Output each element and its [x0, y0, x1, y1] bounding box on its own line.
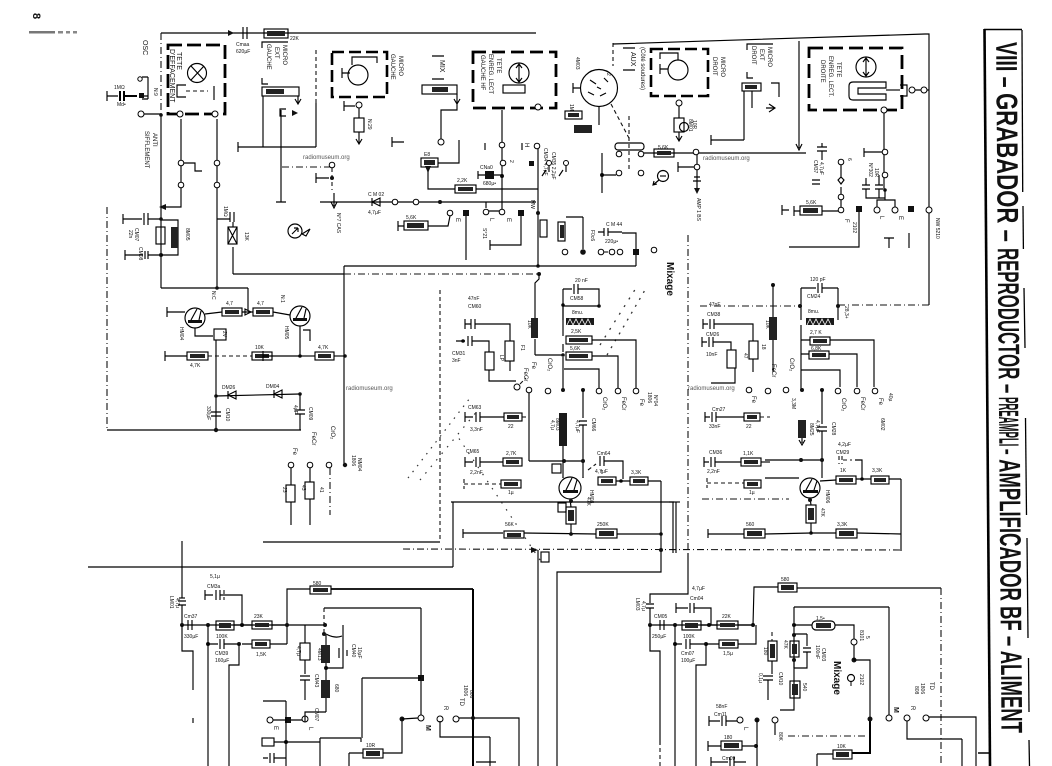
svg-text:1806: 1806 — [646, 392, 652, 403]
RM03 left drop — [262, 96, 264, 147]
record head right box TETE ENREG. LECT. DROITE — [809, 48, 902, 110]
erase head symbol (circle with X) — [188, 64, 207, 83]
svg-text:2,7K: 2,7K — [506, 451, 517, 457]
resistor RM44 — [744, 529, 765, 538]
output pins row — [267, 717, 273, 723]
svg-text:330µF: 330µF — [205, 406, 211, 420]
cap CM40 column — [342, 625, 344, 648]
ground bar y288 — [161, 287, 248, 289]
svg-text:CM31: CM31 — [452, 351, 466, 357]
connector RM03 box — [262, 87, 299, 96]
osc vertical wire — [160, 33, 162, 115]
svg-text:5: 5 — [864, 636, 870, 639]
cap CM03 — [794, 634, 811, 668]
svg-text:FeCr: FeCr — [859, 397, 865, 410]
wires to contacts — [711, 340, 773, 383]
svg-text:LM03: LM03 — [634, 598, 640, 611]
svg-text:680µ•: 680µ• — [483, 181, 496, 187]
transistor T2 — [290, 306, 310, 326]
svg-text:N:1: N:1 — [279, 295, 285, 303]
svg-text:Cm27: Cm27 — [712, 407, 726, 413]
svg-text:E: E — [505, 218, 511, 222]
x698 column — [694, 164, 700, 170]
head core bar — [503, 85, 525, 93]
svg-text:6M02: 6M02 — [879, 418, 885, 431]
pin on head box — [535, 104, 541, 110]
svg-text:2: 2 — [508, 160, 514, 163]
svg-text:radiomuseum.org: radiomuseum.org — [303, 155, 350, 161]
svg-text:CM37: CM37 — [812, 160, 818, 174]
svg-text:CM3a: CM3a — [207, 584, 221, 590]
cap col2 — [461, 339, 465, 343]
svg-text:SIFFLEMENT: SIFFLEMENT — [143, 131, 149, 169]
resistor row at T4 — [836, 476, 856, 484]
svg-text:180: 180 — [724, 735, 733, 741]
x583 link — [566, 217, 583, 249]
svg-text:10K: 10K — [837, 744, 847, 750]
resistor RM22b — [836, 529, 857, 538]
ticks — [485, 143, 522, 150]
svg-text:EXT: EXT — [758, 49, 764, 61]
svg-text:220µ•: 220µ• — [605, 239, 618, 245]
long dash bus y550 — [403, 549, 901, 550]
svg-text:REPRODUCTOR –: REPRODUCTOR – — [991, 248, 1025, 398]
svg-text:E: E — [454, 218, 460, 222]
svg-text:CrO₂: CrO₂ — [329, 426, 335, 440]
svg-text:5,6K: 5,6K — [406, 215, 417, 221]
svg-text:TD: TD — [458, 698, 464, 707]
bracket — [900, 85, 907, 96]
caps pair N302 — [862, 175, 885, 198]
vertical x757 — [756, 720, 758, 766]
dark resistor下 — [798, 420, 806, 438]
bracket right — [771, 83, 779, 97]
svg-text:8: 8 — [30, 13, 42, 19]
x239 jog down — [229, 644, 239, 766]
node — [561, 303, 565, 307]
svg-text:Fe: Fe — [530, 362, 536, 370]
x706 jog down — [696, 644, 706, 766]
svg-text:Cm37: Cm37 — [184, 614, 198, 620]
mic T lead — [342, 68, 350, 78]
resistor 56K — [504, 531, 524, 538]
pin on erase head 2 — [212, 111, 218, 117]
svg-text:M: M — [424, 725, 431, 731]
svg-text:DROITE: DROITE — [819, 60, 825, 83]
dashed selector column — [323, 608, 325, 632]
dash-dot divider left — [106, 207, 108, 430]
svg-text:100K: 100K — [683, 634, 695, 640]
svg-text:4,2µF: 4,2µF — [838, 442, 851, 448]
resistor RM09 — [222, 308, 242, 316]
svg-text:47nF: 47nF — [468, 296, 479, 302]
small box x541 — [541, 552, 549, 562]
arrow into wire — [752, 91, 775, 112]
bus y534 — [463, 529, 503, 538]
CrO2 feed — [564, 369, 599, 388]
svg-text:4,7µF: 4,7µF — [818, 162, 824, 175]
x563 down to transistor — [562, 446, 564, 478]
svg-text:N°302: N°302 — [867, 163, 873, 177]
svg-text:MICRO: MICRO — [397, 56, 403, 76]
wires resistors to contacts — [592, 340, 636, 388]
tiny header note text — [29, 31, 55, 34]
svg-text:M: M — [892, 707, 899, 713]
vert x661 — [557, 481, 661, 766]
svg-text:CM36: CM36 — [709, 450, 723, 456]
arrow V below RM03 — [295, 96, 301, 104]
svg-text:43: 43 — [300, 485, 306, 491]
svg-text:1806: 1806 — [462, 685, 468, 696]
capacitor CM48 on top bus — [243, 27, 247, 39]
junction — [852, 658, 857, 663]
contact chain x841 — [838, 159, 844, 165]
join bottoms — [489, 370, 516, 381]
svg-text:41: 41 — [318, 487, 324, 493]
svg-text:CrO₂: CrO₂ — [788, 358, 794, 372]
svg-text:CM60: CM60 — [468, 304, 482, 310]
svg-text:5,6K: 5,6K — [658, 145, 669, 151]
svg-text:E8: E8 — [424, 152, 430, 158]
svg-text:1806: 1806 — [350, 455, 356, 466]
T-bar right edge — [782, 205, 789, 215]
svg-text:2102: 2102 — [851, 222, 857, 233]
mic capsule circle — [348, 65, 368, 85]
wire T3 base from caps — [563, 477, 583, 478]
svg-text:8M05: 8M05 — [184, 228, 190, 241]
bus y274 dashed tail — [344, 273, 539, 275]
svg-text:22: 22 — [746, 424, 752, 430]
svg-text:CM40: CM40 — [350, 644, 356, 658]
res vert — [505, 341, 514, 361]
left dark resistor — [531, 318, 538, 338]
svg-text:5,1µ: 5,1µ — [210, 574, 220, 580]
svg-text:C M 44: C M 44 — [606, 222, 622, 228]
resistor RM23 — [810, 337, 830, 345]
tape contacts mid group — [596, 388, 602, 394]
second row y644 right — [673, 642, 677, 646]
svg-text:620µF: 620µF — [236, 49, 250, 55]
svg-text:D'EFFACEMENT: D'EFFACEMENT — [168, 49, 175, 103]
svg-text:CM43: CM43 — [313, 674, 319, 688]
erase head vertical 2 — [216, 119, 218, 288]
left rail — [535, 274, 563, 390]
svg-text:4,7µ: 4,7µ — [174, 598, 180, 608]
svg-text:E: E — [272, 726, 278, 730]
resistor RM24 — [809, 351, 829, 359]
svg-text:10R: 10R — [366, 743, 376, 749]
dash from CrO2 down — [329, 468, 331, 515]
main node wire y625 right — [650, 624, 753, 626]
resistor boxes under DIN — [565, 111, 582, 119]
junction dots — [214, 394, 218, 398]
svg-text:CM08: CM08 — [137, 247, 143, 261]
junction — [159, 113, 163, 117]
arrow V below RM01 — [441, 94, 460, 139]
feedback loop up right — [753, 587, 778, 625]
pin below mic droit — [676, 100, 682, 106]
svg-text:N:9: N:9 — [152, 88, 158, 96]
svg-text:GRABADOR –: GRABADOR – — [989, 93, 1023, 248]
connector RM01 box — [422, 85, 457, 94]
wire y356 left T — [263, 351, 300, 361]
R TD pins — [437, 716, 443, 722]
svg-text:CM05: CM05 — [654, 614, 668, 620]
svg-text:4,7µF: 4,7µF — [574, 420, 580, 433]
cap CM10 on x216 — [211, 412, 221, 416]
svg-text:8mu.: 8mu. — [808, 309, 819, 315]
T1 to RM09 — [205, 312, 222, 314]
svg-text:1µ: 1µ — [749, 490, 755, 496]
svg-text:180: 180 — [762, 647, 768, 656]
resistor pair under coil — [566, 336, 592, 344]
right bus lower — [928, 213, 930, 305]
svg-text:3,3nF: 3,3nF — [470, 427, 483, 433]
svg-text:MICRO: MICRO — [719, 57, 725, 77]
M node link — [402, 718, 418, 719]
svg-text:10R: 10R — [873, 168, 879, 178]
input column from bus — [181, 541, 183, 598]
RM16 vertical — [540, 220, 547, 237]
bottom contact row — [598, 249, 604, 255]
bus y567 — [88, 566, 453, 568]
svg-text:100K: 100K — [216, 634, 228, 640]
head inner bracket — [177, 85, 186, 97]
dash to 10K — [208, 355, 252, 357]
T2 collector down — [299, 326, 301, 356]
svg-text:TD: TD — [928, 682, 934, 691]
vert x901 — [900, 479, 902, 551]
svg-text:8mu.: 8mu. — [572, 310, 583, 316]
wires mixage out — [854, 660, 870, 720]
resistor RM06 with T-bar — [165, 351, 187, 361]
transistor T4 — [800, 478, 820, 498]
DIN stub — [573, 83, 580, 93]
wire to T2 — [273, 312, 290, 315]
svg-text:4M13: 4M13 — [316, 648, 322, 661]
resistor RM22 — [596, 529, 617, 538]
resistor vert 18K — [727, 350, 736, 368]
svg-text:CrO₂: CrO₂ — [840, 398, 846, 412]
M R TD pins right — [886, 715, 892, 721]
svg-text:4µF: 4µF — [292, 405, 298, 414]
svg-text:100nF: 100nF — [814, 645, 820, 659]
contacts CrO2 FeCr Fe — [835, 388, 841, 394]
band left rule — [985, 29, 991, 766]
svg-text:NM04: NM04 — [356, 458, 362, 472]
svg-text:2,2nF: 2,2nF — [470, 470, 483, 476]
cap CM07 cluster — [123, 214, 142, 224]
svg-text:5,6K: 5,6K — [806, 200, 817, 206]
arrow junction — [242, 309, 253, 315]
svg-text:LM01: LM01 — [168, 596, 174, 609]
svg-text:AMPLIFICADOR BF – ALIMENT: AMPLIFICADOR BF – ALIMENT — [992, 459, 1027, 733]
connector circle-arrow right — [658, 171, 669, 182]
svg-text:R: R — [442, 706, 448, 711]
svg-text:8M25: 8M25 — [808, 423, 814, 436]
svg-text:CM58: CM58 — [570, 296, 584, 302]
left contact cluster CM34/35 — [534, 143, 540, 149]
drop from top bus to wire 152 — [796, 41, 802, 150]
svg-text:CM39: CM39 — [215, 651, 229, 657]
wire E pin — [263, 701, 326, 722]
cap CM38 — [703, 319, 753, 341]
resistor RM04 on top bus — [264, 29, 288, 38]
record switch cluster right — [615, 143, 644, 150]
svg-text:EXT: EXT — [273, 47, 279, 59]
loop — [801, 288, 838, 320]
resistor RM10 — [253, 308, 273, 316]
svg-text:4,7: 4,7 — [226, 301, 233, 307]
divider dash center — [687, 235, 689, 553]
svg-text:2V: 2V — [221, 331, 227, 338]
svg-text:47K: 47K — [782, 640, 788, 650]
svg-text:10K: 10K — [526, 320, 532, 330]
svg-text:HM05: HM05 — [283, 326, 289, 340]
svg-text:80K: 80K — [777, 732, 783, 742]
svg-text:FeCr: FeCr — [770, 364, 776, 377]
svg-text:47: 47 — [742, 353, 748, 359]
R12 right output frame — [780, 607, 889, 715]
svg-text:1,5K: 1,5K — [256, 652, 267, 658]
svg-text:58nF: 58nF — [716, 704, 727, 710]
svg-text:PREAMPLI –: PREAMPLI – — [993, 397, 1024, 457]
resistor RM28 — [252, 640, 270, 648]
svg-text:10nF: 10nF — [706, 352, 717, 358]
center bus drop — [343, 274, 345, 465]
x583 branch with cap — [579, 390, 587, 478]
svg-text:2: 2 — [605, 73, 611, 76]
frame to connector — [797, 587, 941, 589]
vert x440 — [439, 290, 441, 542]
open circle on right bus — [926, 207, 932, 213]
resistor 100K right — [682, 621, 701, 630]
wire 153 — [644, 152, 806, 154]
base line y461 — [529, 393, 583, 461]
resistor below mic droit — [678, 106, 680, 118]
bottom resistor row — [707, 478, 744, 488]
resistor 540 — [790, 681, 800, 698]
junction on center bus — [536, 264, 540, 268]
resistor vert 2 — [749, 341, 758, 359]
svg-text:10K: 10K — [764, 320, 770, 330]
aux bracket long — [276, 110, 286, 202]
svg-text:680: 680 — [333, 684, 339, 693]
wire pin to osc line — [144, 113, 161, 115]
erase head vertical 1 — [161, 119, 181, 207]
svg-text:330µF: 330µF — [184, 634, 198, 640]
main switch wire y202 — [320, 201, 536, 203]
pins to bus — [909, 87, 915, 93]
svg-text:250µF: 250µF — [652, 634, 666, 640]
T1 emitter down to meter box — [195, 328, 213, 336]
head circle with up-down arrow — [856, 57, 876, 77]
contacts on wire — [392, 199, 398, 205]
svg-text:MICRO: MICRO — [281, 45, 287, 65]
bus y542 — [263, 541, 440, 543]
svg-text:6: 6 — [846, 158, 852, 161]
resistor 10K — [252, 352, 272, 360]
svg-text:AMP 1 BS: AMP 1 BS — [695, 198, 701, 222]
svg-text:HM04: HM04 — [178, 327, 184, 341]
svg-text:56K: 56K — [505, 522, 515, 528]
top bus left — [161, 32, 536, 34]
svg-text:OSC: OSC — [141, 40, 148, 55]
top bus right (tilted) — [613, 34, 929, 207]
DIN connector AUX circle — [581, 70, 618, 107]
mic droit T lead — [660, 64, 668, 74]
svg-text:NW 5210: NW 5210 — [934, 218, 940, 239]
vertical x216 — [215, 340, 217, 430]
contact square — [139, 93, 144, 98]
resistor vertical RM05 — [156, 227, 165, 244]
svg-text:N:C: N:C — [210, 291, 216, 300]
T1 base lead — [167, 307, 185, 317]
svg-text:CM10: CM10 — [777, 672, 783, 686]
resistor RM12 — [315, 352, 334, 360]
micro gauche box — [332, 52, 387, 97]
arrow down mic droit — [676, 132, 682, 141]
svg-text:4,7K: 4,7K — [318, 345, 329, 351]
svg-text:R: R — [909, 706, 915, 711]
output pins right channel — [737, 717, 743, 723]
bottom components — [262, 738, 274, 746]
bracket at 889 — [884, 233, 909, 248]
svg-text:4,7µF: 4,7µF — [814, 420, 820, 433]
svg-text:18: 18 — [760, 344, 766, 350]
mic droit tab — [660, 53, 678, 60]
svg-text:100µF: 100µF — [681, 658, 695, 664]
T-bar node — [238, 142, 316, 152]
svg-text:250K: 250K — [597, 522, 609, 528]
stubs into amp — [291, 499, 310, 525]
svg-text:CM28: CM28 — [830, 422, 836, 436]
resistor row at T3 — [598, 477, 616, 485]
svg-text:4,7K: 4,7K — [190, 363, 201, 369]
svg-text:4,7µF: 4,7µF — [368, 210, 381, 216]
head output wire — [886, 89, 900, 91]
dotted switch marks — [607, 290, 645, 355]
bracket contact — [142, 77, 148, 99]
svg-text:560: 560 — [746, 522, 755, 528]
arrow on top bus — [228, 30, 234, 36]
svg-text:Cm11: Cm11 — [714, 712, 727, 718]
svg-text:DM04: DM04 — [266, 384, 280, 390]
cap 20nF — [563, 284, 599, 305]
svg-text:TETE: TETE — [495, 58, 501, 73]
svg-text:2,5K: 2,5K — [571, 329, 582, 335]
RM01 drop pin — [438, 139, 444, 145]
svg-text:4,7µF: 4,7µF — [692, 586, 705, 592]
end bus y550 right corner — [537, 550, 539, 766]
svg-text:MW: MW — [529, 200, 535, 209]
svg-text:808: 808 — [468, 690, 474, 699]
cap CM28 — [817, 390, 827, 478]
tone network columns — [304, 625, 306, 643]
svg-text:LP: LP — [498, 355, 504, 362]
svg-text:ENREG. LECT.: ENREG. LECT. — [827, 56, 833, 97]
svg-text:4M03: 4M03 — [574, 57, 580, 70]
head column x502 — [501, 110, 503, 209]
mic tab — [352, 57, 377, 65]
svg-text:5,6K: 5,6K — [570, 346, 581, 352]
ground stub x521 — [518, 210, 524, 216]
connector circle-arrow — [288, 224, 302, 238]
connector RM02 box — [742, 83, 761, 91]
wire y356 to RM12 — [300, 355, 315, 357]
record head left box TETE ENREG LECT GAUCHE HF — [473, 52, 556, 108]
svg-text:28,3+: 28,3+ — [843, 306, 849, 319]
